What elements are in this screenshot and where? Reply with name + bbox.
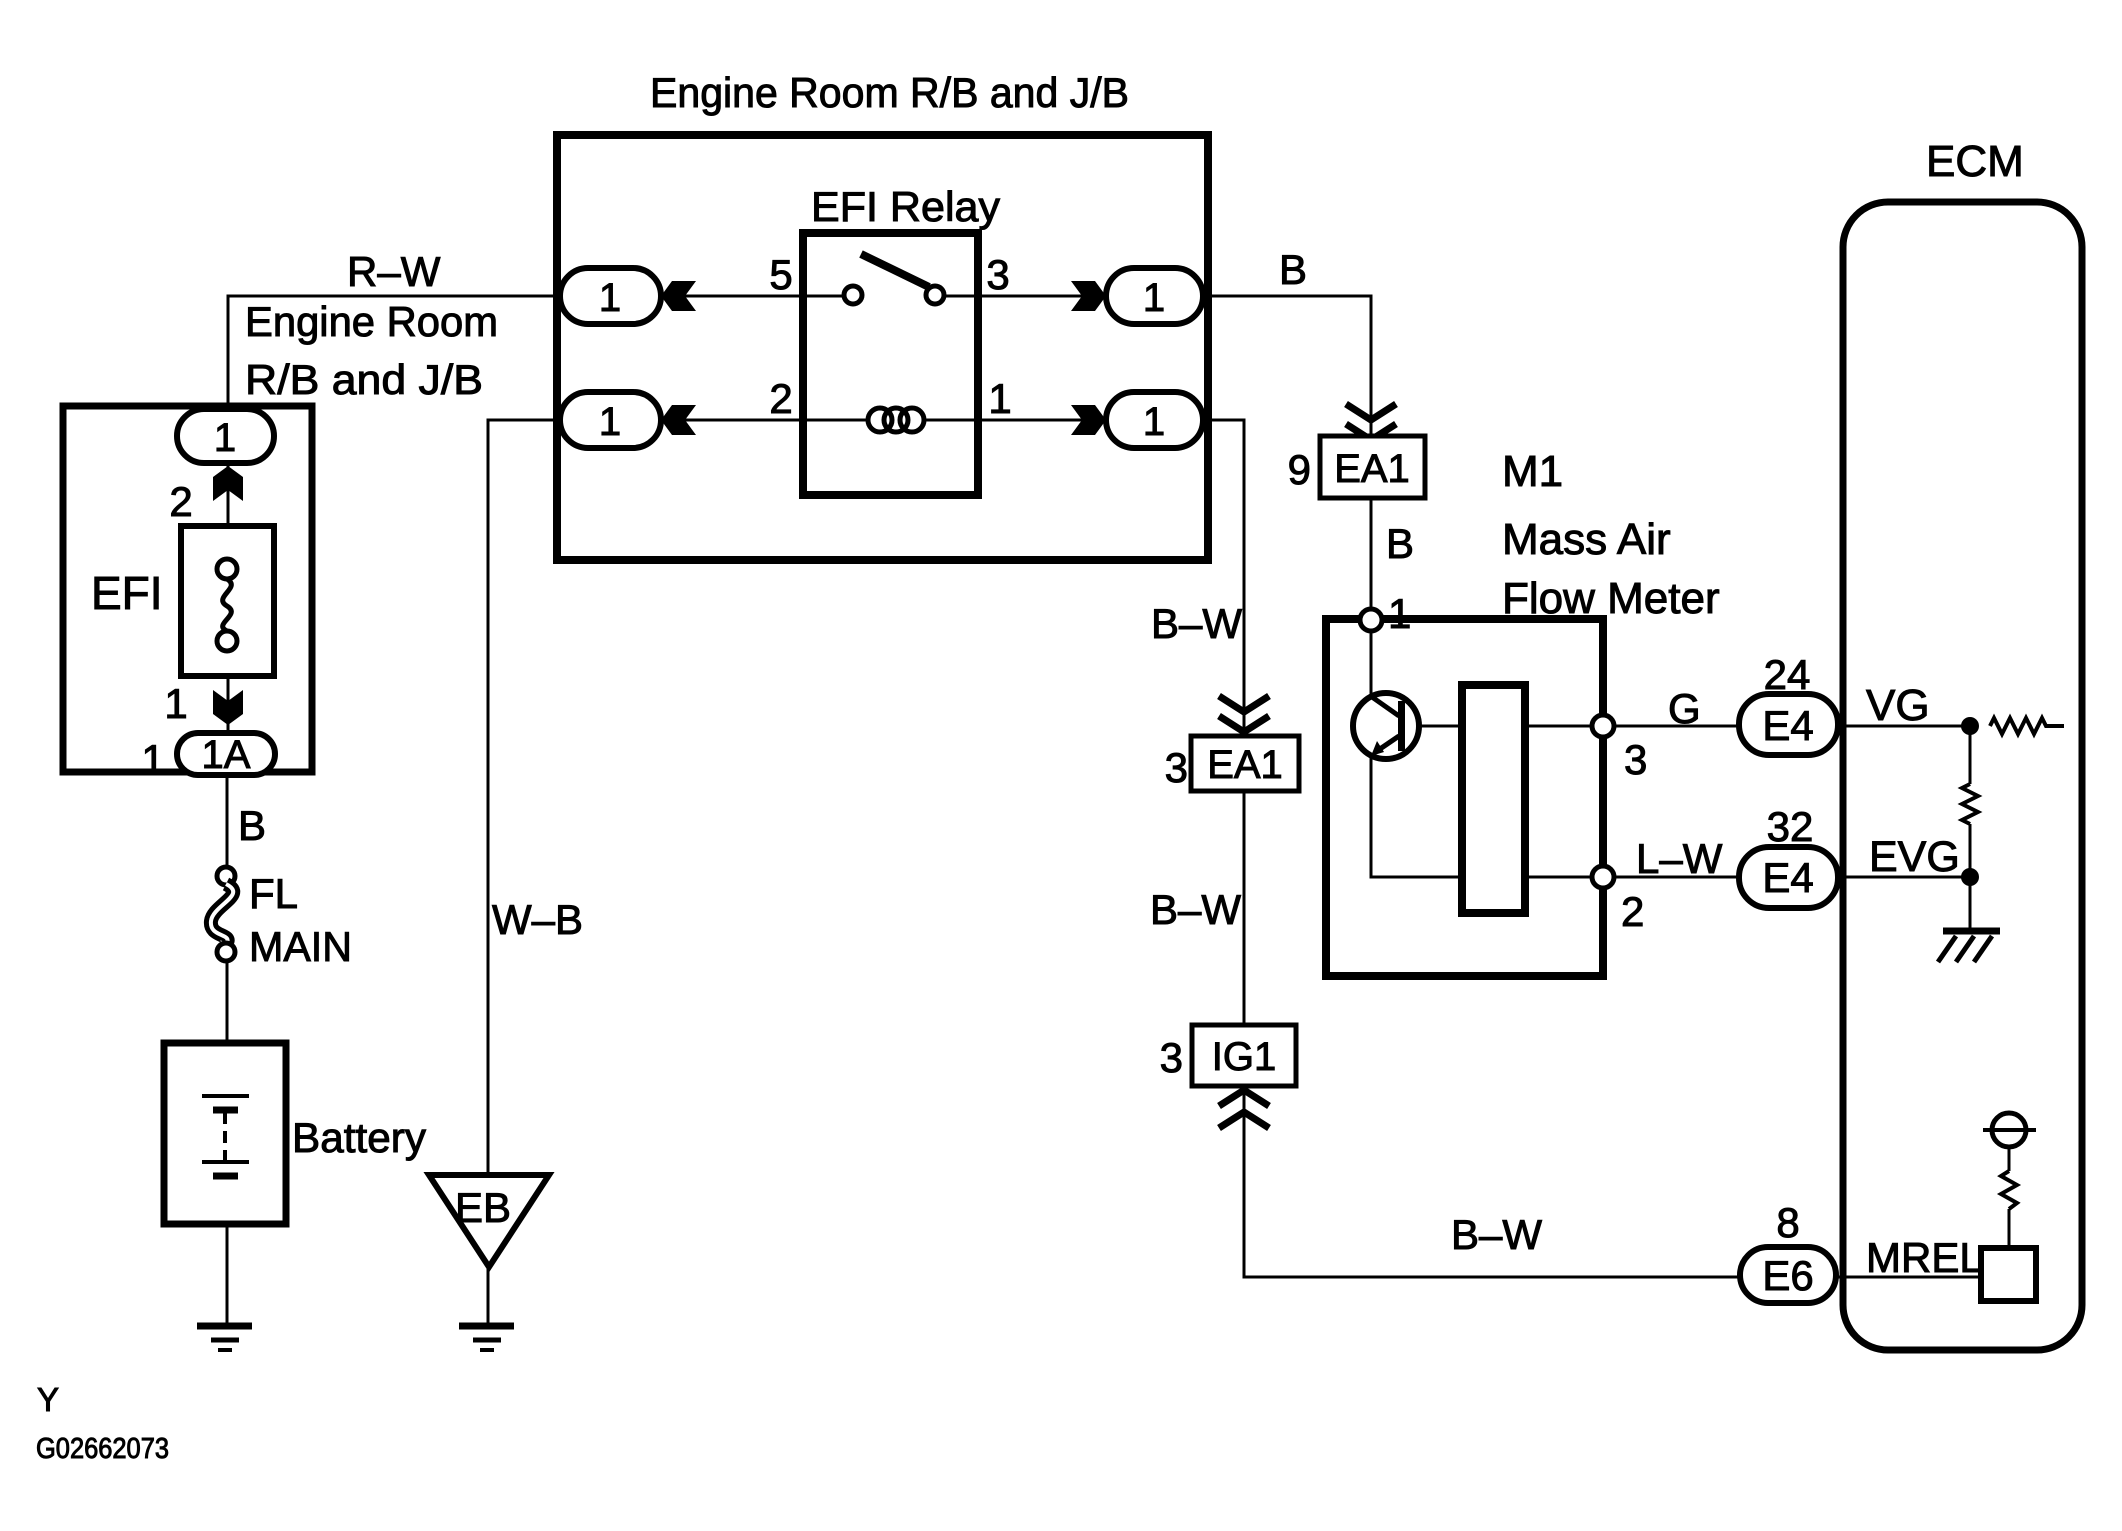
connector EA1 (pin 9) [1320,436,1425,498]
wire B from EA1(9) to MAF node 1 [1370,498,1373,620]
wire VG into ECM [1838,725,1970,728]
svg-text:9: 9 [1288,446,1311,493]
svg-text:1: 1 [141,736,164,783]
svg-text:3: 3 [986,251,1009,298]
wire MREL circle to resistor [2008,1147,2011,1171]
relay coil [868,408,924,432]
wire B from relay to EA1(9) [1203,296,1371,436]
relay switch contact pin 5 [844,286,862,304]
battery box [164,1043,286,1224]
wire MREL into ECM [1838,1276,1981,1279]
splice chevrons above EA1(9) [1346,404,1396,440]
ground (battery) [197,1326,252,1350]
svg-text:1: 1 [599,276,621,320]
connector E6 (pin 8) [1740,1247,1836,1303]
svg-text:32: 32 [1767,803,1814,850]
svg-text:1: 1 [599,400,621,444]
svg-text:B: B [238,802,266,849]
connector EA1 (pin 3) [1191,736,1299,791]
wire L-W net [1614,876,1739,879]
wire B-W IG1 to E6 [1244,1086,1740,1277]
Mass Air Flow Meter box M1 [1326,619,1603,976]
node 1 on MAF box [1360,609,1382,631]
wire EVG into ECM [1838,876,1970,879]
wire MREL resistor to square [2008,1209,2011,1248]
svg-text:L–W: L–W [1636,835,1723,882]
wire EVG junction to ground [1969,877,1972,928]
svg-text:MAIN: MAIN [249,923,352,970]
wire MAF element to node 2 [1525,876,1603,879]
svg-text:Engine Room: Engine Room [245,298,498,345]
wire B-W from relay to EA1(3) [1203,420,1244,736]
svg-text:EFI Relay: EFI Relay [811,183,1000,230]
fuse EFI body [181,526,274,676]
svg-text:3: 3 [1624,736,1647,783]
transistor Q (hot wire) [1353,693,1419,759]
connector E4 (pin 32) [1739,847,1838,908]
MREL driver square [1981,1248,2036,1301]
wire inside battery top [225,1043,228,1094]
connector IG1 (pin 3) [1192,1025,1296,1086]
wire MAF transistor to element top [1404,725,1462,728]
svg-text:Y: Y [37,1381,59,1418]
svg-text:B–W: B–W [1151,600,1242,647]
svg-text:EA1: EA1 [1207,743,1283,787]
svg-text:MREL: MREL [1866,1234,1983,1281]
arrow into top-right oval [1071,281,1106,311]
ground (EB) [459,1326,514,1350]
svg-text:FL: FL [249,870,298,917]
splice chevrons below IG1 [1219,1090,1269,1128]
svg-text:5: 5 [769,251,792,298]
svg-text:IG1: IG1 [1212,1035,1276,1079]
relay switch contact pin 3 [926,286,944,304]
svg-text:W–B: W–B [492,896,583,943]
svg-text:EA1: EA1 [1334,447,1410,491]
wire relay pin2 [684,419,867,422]
wire inside EFI block (oval 1 to fuse) [227,463,230,559]
resistor (VG pull) horizontal [1990,718,2064,734]
arrow into top-left oval [661,281,696,311]
connector oval 1 (relay top-right) [1106,268,1203,324]
EFI fuse block box [63,406,312,772]
svg-text:EVG: EVG [1869,833,1960,881]
arrow down to oval 1A [213,690,243,725]
wire B-W EA1(3) to IG1 [1243,791,1246,1025]
svg-text:E4: E4 [1762,854,1813,901]
splice chevrons above EA1(3) [1219,696,1269,732]
svg-text:1: 1 [164,680,187,727]
fusible link FL MAIN terminal top [217,867,235,885]
svg-text:E4: E4 [1762,702,1813,749]
arrow into bottom-right oval [1071,405,1106,435]
svg-text:VG: VG [1866,681,1930,730]
svg-text:B: B [1279,246,1307,293]
wire relay pin5 [684,295,844,298]
connector oval 1A [177,733,275,775]
svg-text:B: B [1386,520,1414,567]
fusible link element [211,884,233,944]
relay switch blade [861,254,929,287]
connector E4 (pin 24) [1739,694,1838,755]
node 3 on MAF box [1592,715,1614,737]
wire relay pin3 [944,295,1083,298]
junction dot VG [1961,717,1979,735]
wire W-B from relay to EB triangle [488,420,560,1175]
fuse element [223,579,232,631]
svg-text:Mass Air: Mass Air [1502,515,1671,564]
fusible link FL MAIN terminal bottom [217,943,235,961]
svg-text:2: 2 [769,375,792,422]
fuse terminal bottom [217,631,237,651]
wire EB apex to ground [487,1267,490,1323]
ECM box [1843,202,2082,1350]
svg-text:EFI: EFI [91,567,163,619]
svg-text:ECM: ECM [1926,137,2024,186]
svg-text:1: 1 [1143,276,1165,320]
Engine Room R/B and J/B box [557,135,1208,560]
ground (ECM internal) [1938,931,2000,962]
arrow into bottom-left oval [661,405,696,435]
sensing element [1462,685,1525,913]
wire fuse to oval 1A [227,651,230,733]
resistor between VG and EVG [1962,784,1978,824]
junction dot EVG [1961,868,1979,886]
ground EB triangle [429,1175,549,1267]
svg-text:M1: M1 [1502,447,1563,496]
node 2 on MAF box [1592,866,1614,888]
svg-text:EB: EB [455,1184,511,1231]
resistor MREL [2001,1171,2017,1209]
connector oval 1 (relay bottom-left) [560,392,661,448]
wire R-W from relay box to EFI block [228,296,560,409]
arrow up to oval 1 [213,466,243,501]
svg-text:3: 3 [1165,744,1188,791]
wire inside battery bottom [225,1178,228,1224]
svg-text:Engine Room R/B and J/B: Engine Room R/B and J/B [650,69,1129,116]
EFI Relay box [803,233,978,495]
battery plates [202,1096,249,1176]
svg-text:1: 1 [214,416,236,460]
MREL driver circle [1992,1113,2026,1147]
svg-text:B–W: B–W [1451,1211,1542,1258]
svg-text:B–W: B–W [1150,886,1241,933]
wire battery to ground [226,1224,229,1323]
connector oval 1 (relay top-left) [560,268,661,324]
svg-text:3: 3 [1160,1034,1183,1081]
svg-text:E6: E6 [1762,1252,1813,1299]
fuse terminal top [217,559,237,579]
wire MAF element to node 3 [1525,725,1603,728]
svg-text:1: 1 [988,375,1011,422]
wire relay pin1 [924,419,1083,422]
connector oval 1 (relay bottom-right) [1106,392,1203,448]
svg-text:G02662073: G02662073 [36,1433,169,1465]
wire B battery net: 1A to FL [226,775,229,867]
svg-text:2: 2 [169,478,192,525]
svg-text:1: 1 [1143,400,1165,444]
svg-text:8: 8 [1776,1199,1799,1246]
connector oval 1 (block top) [177,409,274,463]
svg-text:R–W: R–W [347,248,441,295]
wire FL to battery [226,961,229,1043]
svg-text:24: 24 [1764,651,1811,698]
svg-text:G: G [1668,685,1701,732]
svg-text:1: 1 [1388,590,1411,637]
wire VG junction down [1969,726,1972,784]
wire MAF transistor to element bottom [1371,755,1462,877]
wire MAF node1 to transistor [1370,631,1373,696]
wire G net [1614,725,1739,728]
svg-text:R/B and J/B: R/B and J/B [245,356,483,403]
svg-text:Flow Meter: Flow Meter [1502,574,1720,623]
svg-text:2: 2 [1621,888,1644,935]
wire resistor to EVG junction [1969,824,1972,877]
svg-text:Battery: Battery [292,1114,426,1161]
svg-text:1A: 1A [202,733,251,777]
